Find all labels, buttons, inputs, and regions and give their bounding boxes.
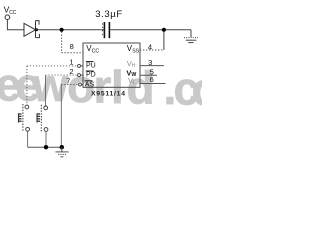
switch SW1 push-button bbox=[18, 104, 30, 132]
ground bottom bbox=[55, 152, 68, 157]
IC U1 X9511/14 box bbox=[83, 43, 140, 87]
wire SW2 riser bbox=[45, 75, 47, 106]
wire SW1 riser dotted bbox=[26, 66, 28, 105]
svg-text:r: r bbox=[94, 61, 112, 113]
wire VH pin 3 bbox=[140, 65, 164, 67]
wire stub to bottom ground bbox=[61, 147, 63, 151]
watermark eeworld.com bbox=[0, 58, 220, 115]
wire AS dashed bbox=[61, 84, 78, 86]
pin 1 PU bubble bbox=[78, 64, 81, 67]
svg-text:H: H bbox=[132, 63, 136, 69]
svg-text:2: 2 bbox=[69, 67, 73, 76]
wire VW pin 5 bbox=[140, 74, 157, 76]
diode D1 bbox=[24, 21, 39, 38]
node A junction dot bbox=[60, 28, 64, 32]
node B junction dot bbox=[162, 28, 166, 32]
svg-text:w: w bbox=[32, 59, 69, 111]
svg-text:CC: CC bbox=[92, 48, 100, 54]
wire node A to VCC pin 8 (dashed) bbox=[62, 32, 83, 53]
wire SW2 to ground rail bbox=[45, 132, 47, 148]
wire VSS pin 4 (dashed) to node B bbox=[140, 49, 164, 51]
capacitor C1 3.3uF bbox=[103, 22, 110, 38]
svg-text:7: 7 bbox=[66, 76, 70, 85]
ground top right bbox=[184, 38, 198, 43]
svg-text:X9511/14: X9511/14 bbox=[91, 91, 126, 98]
wire VCC terminal to diode anode bbox=[7, 20, 24, 30]
switch SW2 push-button bbox=[37, 105, 48, 132]
pin 7 AS bubble bbox=[79, 83, 82, 86]
junction dot SW2 ground bbox=[44, 145, 48, 149]
wire AS riser to ground rail bbox=[60, 85, 62, 148]
node VCC terminal circle bbox=[5, 15, 10, 20]
svg-text:AS: AS bbox=[85, 81, 95, 88]
wire VL pin 6 bbox=[140, 83, 166, 85]
svg-text:SS: SS bbox=[132, 48, 139, 54]
svg-text:1: 1 bbox=[69, 57, 73, 66]
svg-text:CC: CC bbox=[9, 10, 17, 16]
svg-text:PU: PU bbox=[86, 62, 96, 69]
wire PD dashed to SW2 bbox=[46, 74, 78, 76]
junction dot AS ground bbox=[60, 145, 64, 149]
wire node B to ground bbox=[190, 30, 192, 37]
wire diode cathode to capacitor bbox=[36, 29, 105, 31]
wire PU dashed to SW1 bbox=[27, 65, 78, 67]
svg-text:L: L bbox=[133, 80, 136, 86]
wire riser pin4 to node B bbox=[163, 31, 165, 50]
wire ground rail bottom bbox=[28, 146, 62, 148]
svg-text:6: 6 bbox=[150, 75, 154, 84]
wire capacitor to node B bbox=[110, 29, 191, 31]
svg-text:3: 3 bbox=[148, 58, 152, 67]
wire SW1 to ground rail bbox=[27, 132, 29, 148]
svg-text:PD: PD bbox=[86, 72, 96, 79]
svg-text:3.3µF: 3.3µF bbox=[95, 9, 122, 20]
svg-text:8: 8 bbox=[70, 42, 74, 51]
svg-text:o: o bbox=[192, 63, 203, 115]
junction dot at diode cathode bbox=[35, 28, 38, 31]
svg-text:4: 4 bbox=[148, 43, 152, 52]
pin 2 PD bubble bbox=[78, 74, 81, 77]
